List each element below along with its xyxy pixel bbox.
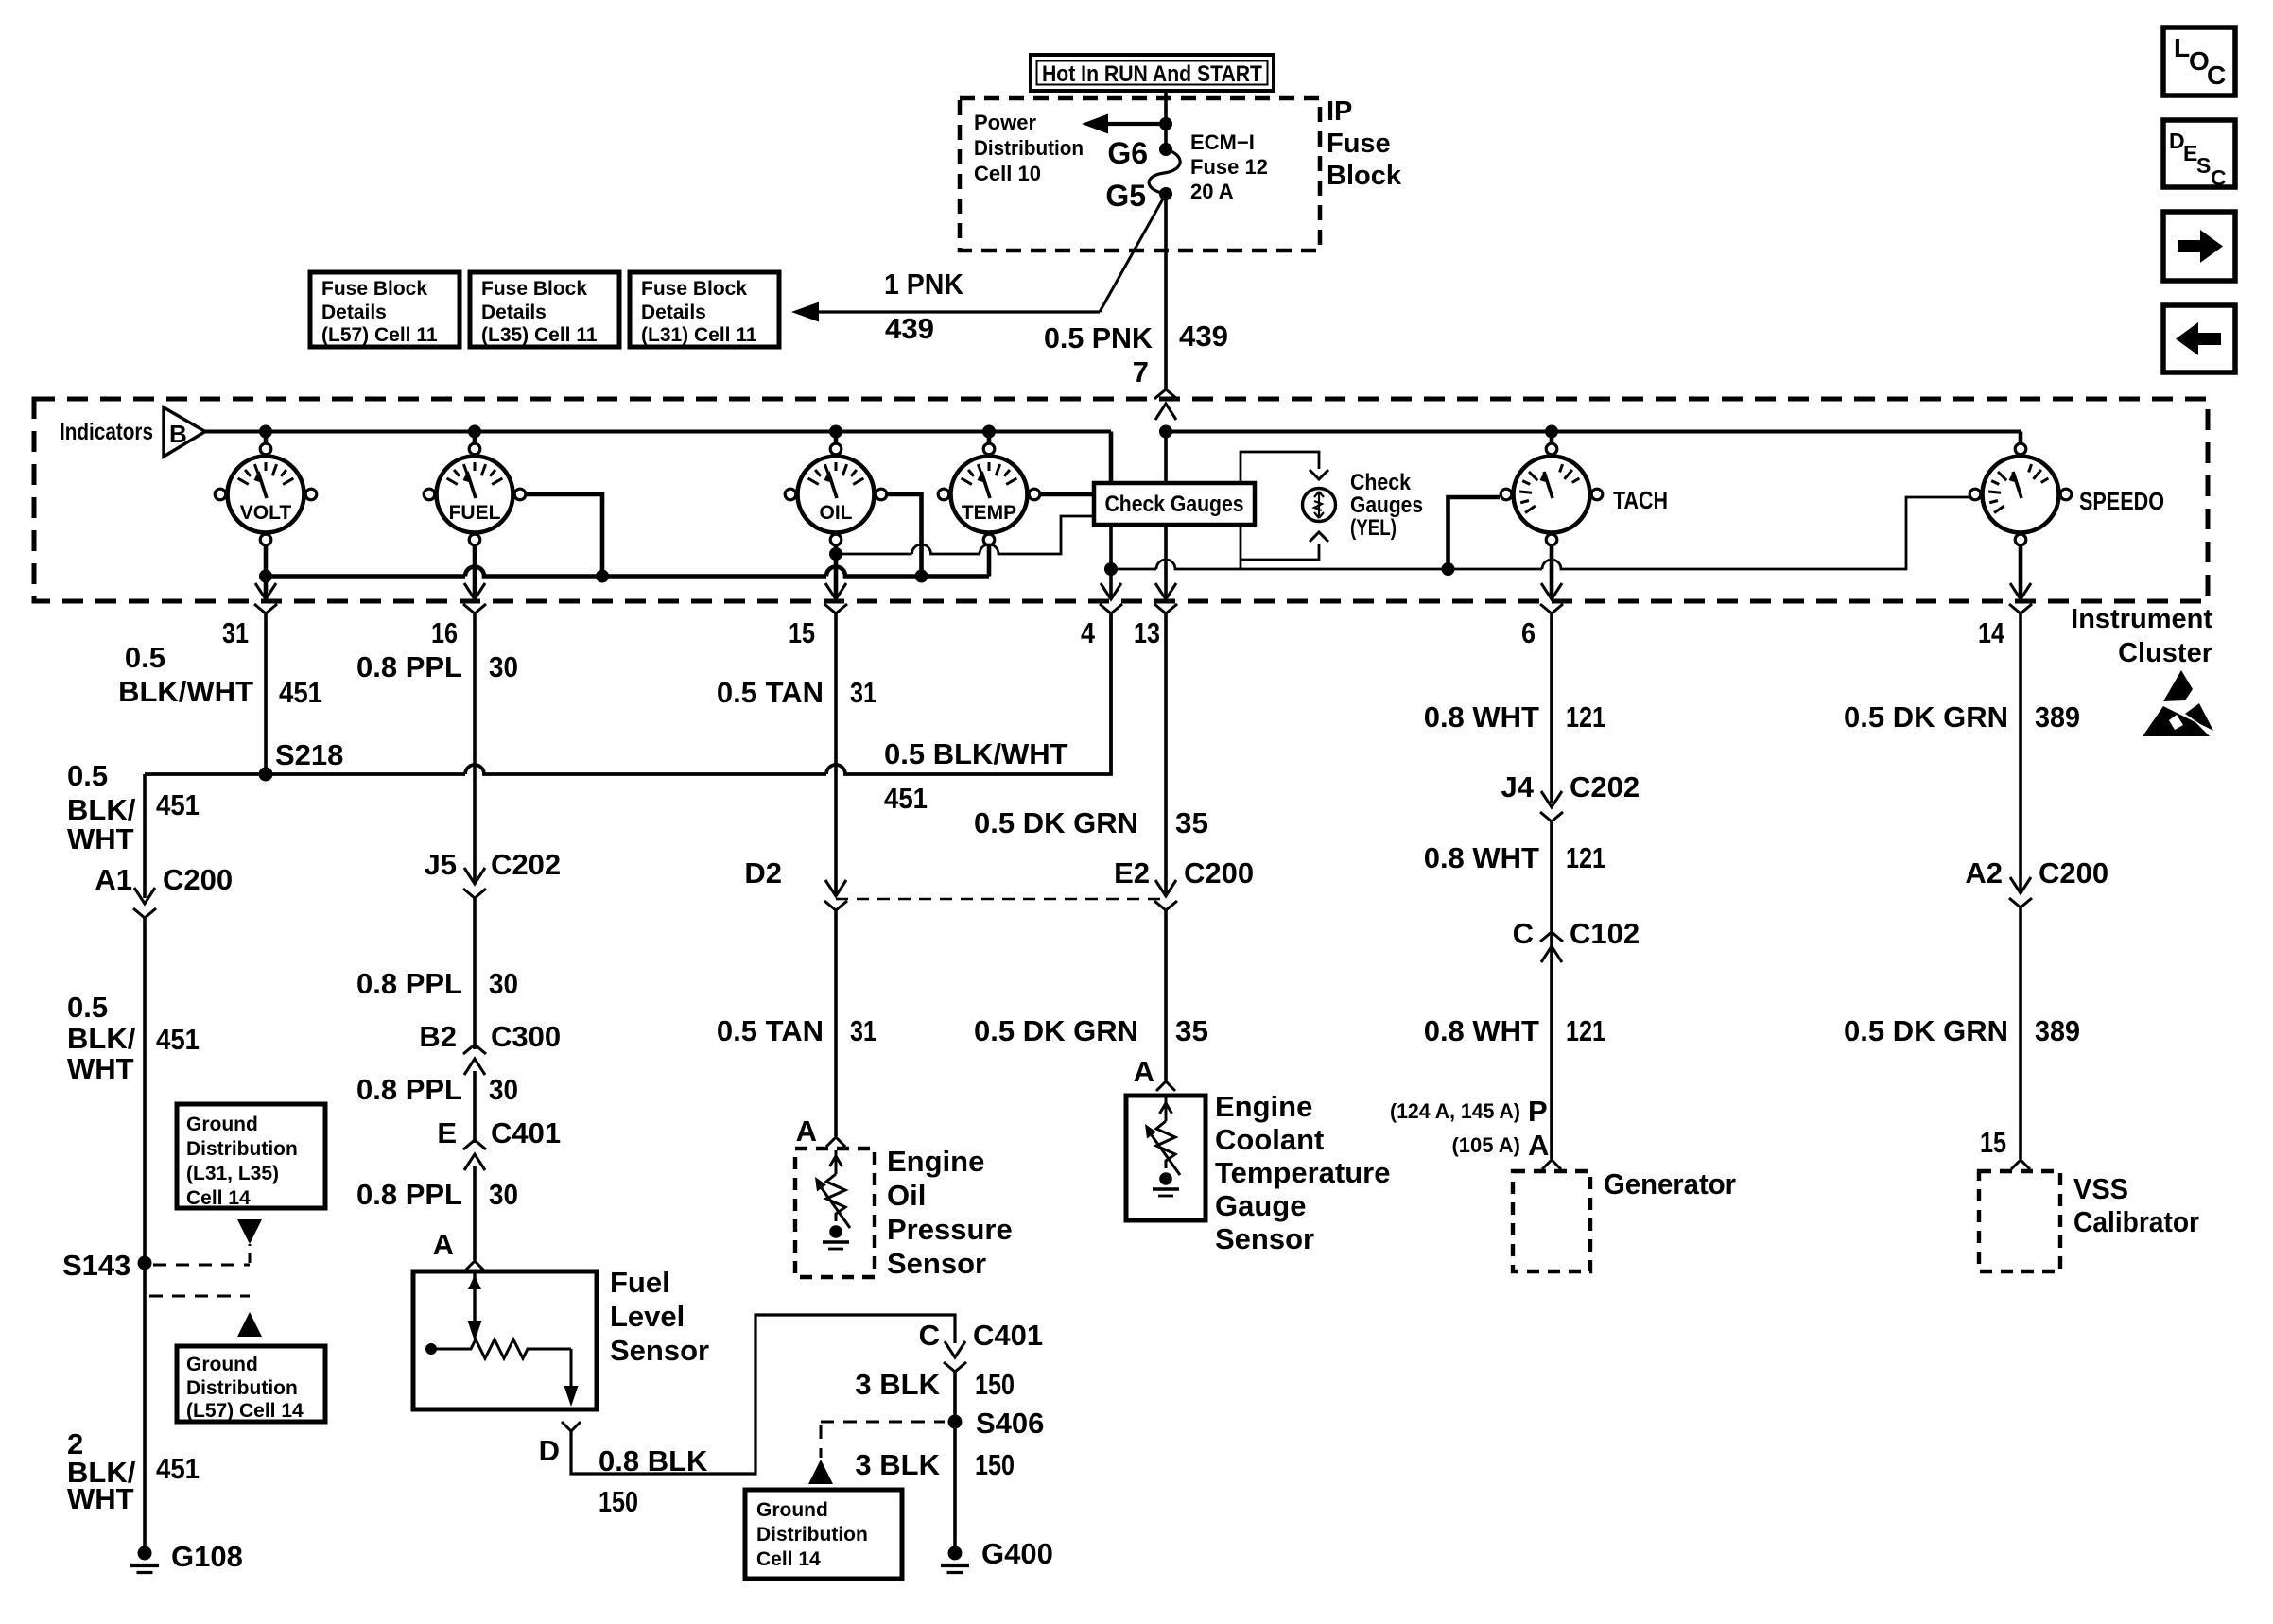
svg-text:3 BLK: 3 BLK: [855, 1448, 940, 1481]
stub bus to TEMP top: [987, 432, 992, 444]
connector B2 C300: [464, 1059, 485, 1075]
svg-text:J4: J4: [1501, 770, 1535, 803]
junction dot bus over TACH: [1545, 425, 1558, 439]
svg-text:G6: G6: [1107, 136, 1148, 170]
svg-text:S406: S406: [976, 1407, 1044, 1440]
gauge OIL: [798, 457, 875, 533]
coolant sensor top chevron: [1156, 1081, 1175, 1091]
svg-text:C200: C200: [1184, 856, 1254, 890]
svg-text:G5: G5: [1105, 179, 1146, 213]
svg-text:S143: S143: [62, 1249, 130, 1282]
svg-text:20 A: 20 A: [1190, 180, 1234, 203]
dashed link S143 to L31/L35 ground cell: [153, 1264, 250, 1267]
svg-text:6: 6: [1521, 616, 1536, 649]
cluster exit connector pin 6: [1541, 583, 1562, 599]
svg-text:Details: Details: [321, 302, 387, 323]
svg-text:150: 150: [975, 1368, 1015, 1401]
wire A1 to S143: [143, 918, 147, 1263]
svg-text:Engine: Engine: [887, 1145, 984, 1178]
svg-text:A: A: [1134, 1055, 1154, 1088]
Fuse Block Details box 1: [310, 272, 460, 347]
arrowhead to Fuse Block Details: [791, 302, 819, 322]
svg-text:Block: Block: [1327, 161, 1402, 191]
svg-text:150: 150: [599, 1485, 638, 1518]
wire lamp loop left+top: [1241, 452, 1319, 569]
arrow to Power Distribution: [1099, 122, 1166, 126]
connector C C102: [1541, 946, 1562, 962]
IP Fuse Block dashed outline: [960, 98, 1320, 251]
svg-text:Instrument: Instrument: [2071, 604, 2212, 634]
connector E2 C200: [1155, 880, 1176, 896]
wire C102 to generator: [1550, 957, 1553, 1159]
lamp bottom chevron: [1310, 532, 1328, 542]
terminal G6 dot: [1159, 143, 1172, 156]
connector A1 C200: [134, 888, 155, 904]
svg-text:Details: Details: [641, 302, 706, 323]
Fuel Level Sensor box: [413, 1271, 597, 1409]
svg-text:D2: D2: [744, 856, 782, 890]
wire indicator bus: [205, 430, 1111, 434]
cluster entry connector pin 7: [1155, 404, 1176, 420]
wire FUEL right terminal branch: [527, 494, 602, 577]
wire 4 below Check Gauges box: [1109, 522, 1113, 597]
svg-text:Temperature: Temperature: [1215, 1156, 1391, 1189]
dashed link S143 to L57 ground cell: [149, 1295, 250, 1298]
wire OIL bottom: [834, 545, 839, 597]
svg-text:15: 15: [789, 616, 815, 649]
svg-text:C200: C200: [163, 863, 233, 896]
cluster exit connector pin 14: [2010, 583, 2031, 599]
wire bus corner down to SPEEDO top: [2019, 432, 2023, 444]
svg-text:Fuel: Fuel: [610, 1266, 670, 1299]
wire TACH bottom: [1550, 545, 1554, 597]
svg-text:451: 451: [156, 788, 200, 821]
svg-text:35: 35: [1175, 806, 1208, 839]
svg-text:0.8 PPL: 0.8 PPL: [356, 1178, 462, 1211]
svg-text:Fuse 12: Fuse 12: [1190, 155, 1268, 179]
fuel sensor output lead: [570, 1349, 573, 1388]
wire TEMP bottom to ground bus: [987, 545, 992, 577]
label box 'Hot In RUN And START': [1031, 55, 1274, 91]
svg-text:C: C: [2207, 60, 2226, 90]
svg-text:IP: IP: [1327, 96, 1352, 127]
svg-text:121: 121: [1566, 700, 1605, 734]
svg-text:0.5 DK GRN: 0.5 DK GRN: [1844, 700, 2008, 734]
coolant sensor sender symbol: [1160, 1097, 1172, 1121]
wire E to fuel sensor: [473, 1166, 477, 1260]
svg-text:E: E: [437, 1116, 457, 1149]
oil sensor top chevron: [826, 1137, 845, 1147]
svg-text:Distribution: Distribution: [186, 1377, 298, 1399]
junction dot bus over FUEL: [468, 425, 481, 439]
svg-text:31: 31: [850, 676, 876, 709]
svg-text:C202: C202: [1570, 770, 1640, 803]
svg-text:B2: B2: [419, 1020, 457, 1053]
gauge VOLT: [228, 457, 304, 533]
svg-text:13: 13: [1134, 616, 1160, 649]
svg-text:15: 15: [1980, 1126, 2006, 1159]
svg-text:4: 4: [1081, 616, 1096, 649]
svg-text:C202: C202: [491, 848, 561, 881]
svg-text:(105 A): (105 A): [1451, 1133, 1520, 1157]
svg-text:Check: Check: [1350, 470, 1412, 495]
wire ignition bus right: [1166, 430, 2021, 434]
svg-text:WHT: WHT: [67, 1052, 134, 1085]
svg-text:G400: G400: [981, 1537, 1053, 1570]
Fuse Block Details box 2: [470, 272, 619, 347]
wire TACH feed up: [1449, 497, 1501, 569]
svg-text:Ground: Ground: [756, 1499, 828, 1521]
gauge SPEEDO: [1983, 457, 2059, 533]
ground bus with hops: [266, 567, 989, 577]
fuel sensor resistor: [425, 1343, 437, 1355]
svg-text:Level: Level: [610, 1300, 685, 1333]
Fuse Block Details box 3: [630, 272, 779, 347]
off-page triangle to ground cell 14: [808, 1460, 833, 1484]
svg-text:C200: C200: [2039, 856, 2108, 890]
svg-text:BLK/: BLK/: [67, 793, 136, 826]
wire lamp loop bottom: [1241, 544, 1319, 560]
junction dot bus over OIL: [829, 425, 842, 439]
svg-text:Ground: Ground: [186, 1354, 258, 1375]
svg-text:Indicators: Indicators: [60, 419, 153, 445]
svg-text:Details: Details: [481, 302, 547, 323]
svg-text:VSS: VSS: [2073, 1172, 2128, 1205]
svg-text:Coolant: Coolant: [1215, 1123, 1324, 1156]
stub bus to TACH top: [1550, 432, 1554, 444]
svg-text:1 PNK: 1 PNK: [884, 268, 964, 301]
wire 31 BLK/WHT down to S218: [264, 613, 268, 774]
gauge FUEL: [437, 457, 513, 533]
wire 13 through cluster: [1164, 432, 1168, 598]
svg-text:150: 150: [975, 1448, 1015, 1481]
gauge TEMP: [951, 457, 1028, 533]
stub bus to FUEL top: [473, 432, 477, 444]
svg-text:0.8 PPL: 0.8 PPL: [356, 1073, 462, 1106]
wire D to C401 connector: [571, 1315, 955, 1474]
dashed connector line D2-E2: [836, 898, 1166, 901]
svg-text:30: 30: [489, 650, 518, 683]
svg-text:TACH: TACH: [1613, 486, 1668, 514]
svg-text:0.5 TAN: 0.5 TAN: [717, 1014, 824, 1047]
VSS top chevron: [2011, 1160, 2030, 1169]
svg-text:Distribution: Distribution: [974, 136, 1084, 160]
svg-text:Cell 14: Cell 14: [756, 1548, 821, 1570]
lamp top chevron: [1310, 470, 1328, 479]
prev-page nav box: [2163, 305, 2235, 372]
svg-text:0.5: 0.5: [125, 641, 165, 674]
junction dot bus over TEMP: [982, 425, 996, 439]
svg-text:439: 439: [885, 312, 934, 345]
svg-text:A: A: [1528, 1129, 1549, 1162]
svg-text:L: L: [2174, 33, 2190, 62]
Ground Distribution (L31,L35) Cell 14 box: [177, 1104, 325, 1208]
svg-text:Check Gauges: Check Gauges: [1105, 492, 1244, 517]
wire J5 to B2: [473, 898, 477, 1049]
wire J4 to C102: [1550, 821, 1553, 957]
svg-text:(124 A, 145 A): (124 A, 145 A): [1390, 1099, 1520, 1123]
svg-text:Fuse: Fuse: [1327, 129, 1391, 159]
svg-text:Cell 14: Cell 14: [186, 1187, 251, 1209]
wire B2 to E: [473, 1071, 477, 1143]
DESC nav box: [2163, 120, 2235, 187]
svg-text:WHT: WHT: [67, 822, 134, 855]
svg-text:451: 451: [156, 1452, 200, 1485]
svg-text:Gauge: Gauge: [1215, 1189, 1306, 1222]
wire FUEL bottom through bus: [473, 545, 477, 597]
junction dot wire4 lamp feed: [1104, 562, 1118, 576]
svg-text:FUEL: FUEL: [449, 502, 501, 524]
svg-text:A: A: [796, 1114, 817, 1148]
svg-text:0.8 PPL: 0.8 PPL: [356, 967, 462, 1000]
ground G400: [948, 1546, 963, 1561]
fuel sensor D chevron: [562, 1422, 581, 1431]
cluster exit connector pin 15: [825, 583, 846, 599]
svg-text:31: 31: [222, 616, 249, 649]
svg-text:0.5 PNK: 0.5 PNK: [1044, 321, 1154, 354]
ESD warning symbol: [2163, 670, 2193, 701]
svg-text:451: 451: [279, 676, 322, 709]
svg-text:SPEEDO: SPEEDO: [2079, 487, 2164, 515]
Ground Distribution Cell 14 box: [745, 1490, 902, 1579]
svg-text:16: 16: [431, 616, 458, 649]
svg-text:(YEL): (YEL): [1350, 515, 1397, 541]
wire S143 to G108: [143, 1263, 147, 1553]
svg-text:A: A: [433, 1228, 454, 1261]
svg-text:(L31, L35): (L31, L35): [186, 1163, 279, 1184]
svg-text:Generator: Generator: [1604, 1167, 1736, 1201]
Ground Distribution (L57) Cell 14 box: [177, 1346, 325, 1422]
wire lamp feed with hop over wire13: [1111, 560, 1241, 569]
off-page triangle to upper ground cell: [237, 1219, 262, 1244]
svg-text:0.5 DK GRN: 0.5 DK GRN: [974, 1014, 1138, 1047]
Generator dashed box: [1513, 1171, 1590, 1271]
VSS Calibrator dashed box: [1979, 1171, 2060, 1271]
wire C to S406: [953, 1371, 957, 1422]
svg-text:Fuse Block: Fuse Block: [641, 278, 747, 300]
stub bus to OIL top: [834, 432, 839, 444]
svg-text:J5: J5: [425, 848, 457, 881]
svg-text:BLK/WHT: BLK/WHT: [118, 675, 253, 708]
svg-text:Fuse Block: Fuse Block: [481, 278, 587, 300]
connector A2 C200: [2010, 877, 2031, 893]
svg-text:(L57) Cell 14: (L57) Cell 14: [186, 1400, 304, 1422]
diagonal wire G5 to 1 PNK: [1100, 194, 1166, 312]
svg-text:121: 121: [1566, 841, 1605, 874]
wire 14 DK GRN to A2: [2019, 613, 2022, 893]
wire bus corner down into Check Gauges box: [1109, 432, 1114, 486]
svg-text:C: C: [2211, 165, 2227, 190]
svg-text:439: 439: [1179, 320, 1228, 353]
svg-text:C: C: [1513, 917, 1534, 950]
connector C C401: [945, 1341, 965, 1357]
junction dot at arrow branch: [1159, 117, 1172, 130]
svg-text:A1: A1: [95, 863, 132, 896]
wire from Hot box to fuse: [1164, 91, 1168, 149]
svg-text:BLK/: BLK/: [67, 1022, 136, 1055]
svg-text:E2: E2: [1114, 856, 1150, 890]
svg-text:7: 7: [1133, 355, 1149, 389]
svg-text:31: 31: [850, 1014, 876, 1047]
svg-text:Oil: Oil: [887, 1179, 926, 1212]
Engine Coolant Temperature Gauge Sensor box: [1126, 1096, 1206, 1220]
wire 16 PPL to J5: [473, 613, 477, 884]
svg-text:C: C: [919, 1319, 940, 1352]
svg-text:Ground: Ground: [186, 1114, 258, 1135]
check gauges indicator lamp: [1303, 489, 1336, 522]
junction dot OIL-right branch on bus: [915, 570, 928, 583]
junction dot ignition bus at wire13: [1159, 425, 1172, 439]
junction dot FUEL-right branch on bus: [596, 570, 609, 583]
svg-text:C401: C401: [491, 1116, 561, 1149]
fuel sensor wiper arrow: [473, 1273, 476, 1322]
wire 0.5 PNK from G5 down to cluster: [1164, 194, 1168, 390]
stub bus to VOLT top: [264, 432, 269, 444]
svg-text:30: 30: [489, 1178, 518, 1211]
wire 6 WHT to J4: [1550, 613, 1553, 803]
wire 13 to E2: [1164, 613, 1168, 896]
wire VOLT bottom to exit: [264, 545, 269, 597]
LOC nav box: [2163, 27, 2235, 95]
svg-text:G108: G108: [171, 1540, 243, 1573]
wire 15 TAN to D2: [834, 613, 838, 896]
svg-text:VOLT: VOLT: [240, 502, 292, 524]
wire OIL right terminal branch: [888, 494, 922, 577]
junction S218 dot: [259, 768, 273, 782]
svg-text:Pressure: Pressure: [887, 1213, 1013, 1246]
wire OIL bottom to Check Gauges box: [836, 516, 1096, 554]
svg-text:C102: C102: [1570, 917, 1640, 950]
junction S406 dot: [948, 1415, 963, 1429]
svg-text:Engine: Engine: [1215, 1090, 1312, 1123]
svg-text:D: D: [539, 1434, 560, 1467]
svg-text:121: 121: [1566, 1014, 1605, 1047]
svg-text:30: 30: [489, 967, 518, 1000]
svg-text:WHT: WHT: [67, 1482, 134, 1515]
svg-text:389: 389: [2035, 700, 2080, 734]
cluster exit connector pin 31: [255, 583, 276, 599]
svg-text:B: B: [169, 420, 187, 448]
wire E2 to coolant sensor: [1164, 909, 1168, 1080]
svg-text:451: 451: [156, 1023, 200, 1056]
cluster exit connector pin 13: [1155, 583, 1176, 599]
cluster exit connector pin 16: [464, 583, 485, 599]
svg-text:S: S: [2196, 153, 2211, 178]
junction dot VOLT ground bus: [259, 570, 272, 583]
svg-text:0.8 PPL: 0.8 PPL: [356, 650, 462, 683]
connector J5 C202: [464, 868, 485, 884]
svg-text:0.5: 0.5: [67, 759, 108, 792]
junction dot OIL bottom: [829, 547, 842, 561]
svg-text:0.8 WHT: 0.8 WHT: [1424, 1014, 1539, 1047]
wire S218 left branch down: [143, 774, 147, 898]
wire lamp feed to TACH and SPEEDO: [1241, 497, 1969, 569]
svg-text:(L31) Cell 11: (L31) Cell 11: [641, 324, 757, 346]
oil sensor sender symbol: [830, 1150, 842, 1174]
wire SPEEDO bottom: [2019, 545, 2023, 597]
wire A2 to VSS: [2019, 907, 2022, 1159]
terminal G5 dot: [1159, 187, 1172, 200]
svg-text:(L35) Cell 11: (L35) Cell 11: [481, 324, 598, 346]
svg-text:Sensor: Sensor: [610, 1334, 709, 1367]
gauge TACH: [1514, 457, 1590, 533]
svg-text:0.5 DK GRN: 0.5 DK GRN: [974, 806, 1138, 839]
svg-text:Cell 10: Cell 10: [974, 162, 1041, 185]
svg-text:0.5: 0.5: [67, 991, 108, 1024]
svg-text:Calibrator: Calibrator: [2073, 1205, 2199, 1238]
svg-text:30: 30: [489, 1073, 518, 1106]
wire S218 ground bus: [145, 613, 1111, 774]
svg-text:0.5 TAN: 0.5 TAN: [717, 676, 824, 709]
svg-text:Sensor: Sensor: [887, 1247, 986, 1280]
connector D2: [825, 880, 846, 896]
wire 1 PNK horizontal: [807, 310, 1100, 313]
wire D2 to oil sensor: [834, 909, 838, 1136]
svg-text:A2: A2: [1965, 856, 2003, 890]
svg-text:Power: Power: [974, 111, 1036, 134]
svg-text:14: 14: [1978, 616, 2005, 649]
fuel sensor top chevron: [465, 1261, 484, 1270]
svg-text:0.8 BLK: 0.8 BLK: [599, 1444, 708, 1477]
indicator feed triangle B: [164, 407, 205, 457]
svg-text:Fuse Block: Fuse Block: [321, 278, 427, 300]
Instrument Cluster dashed outline: [34, 399, 2208, 601]
svg-text:Distribution: Distribution: [756, 1524, 868, 1546]
svg-text:C300: C300: [491, 1020, 561, 1053]
svg-text:0.5 DK GRN: 0.5 DK GRN: [1844, 1014, 2008, 1047]
connector E C401: [464, 1154, 485, 1170]
svg-text:35: 35: [1175, 1014, 1208, 1047]
svg-text:Sensor: Sensor: [1215, 1222, 1314, 1255]
svg-text:3 BLK: 3 BLK: [855, 1368, 940, 1401]
svg-text:389: 389: [2035, 1014, 2080, 1047]
off-page triangle to lower ground cell: [237, 1312, 262, 1337]
Engine Oil Pressure Sensor dashed box: [795, 1149, 875, 1277]
svg-text:0.5 BLK/WHT: 0.5 BLK/WHT: [884, 737, 1068, 770]
wire S406 to G400: [953, 1422, 957, 1553]
svg-text:Gauges: Gauges: [1350, 492, 1423, 518]
svg-text:P: P: [1528, 1095, 1548, 1128]
wire TEMP right to Check Gauges box: [1041, 492, 1096, 497]
svg-text:ECM−I: ECM−I: [1190, 130, 1255, 154]
Check Gauges label box: [1094, 483, 1255, 525]
connector J4 C202: [1541, 791, 1562, 807]
svg-text:Hot In RUN And START: Hot In RUN And START: [1042, 61, 1262, 87]
junction dot TACH feed: [1442, 562, 1455, 576]
dashed link S406 to ground cell: [821, 1421, 945, 1424]
svg-text:0.8 WHT: 0.8 WHT: [1424, 841, 1539, 874]
svg-text:(L57) Cell 11: (L57) Cell 11: [321, 324, 438, 346]
ground G108: [138, 1546, 152, 1561]
junction S143 dot: [138, 1256, 152, 1270]
svg-text:OIL: OIL: [820, 502, 853, 524]
svg-text:S218: S218: [275, 738, 343, 771]
svg-text:Distribution: Distribution: [186, 1138, 298, 1160]
svg-text:451: 451: [884, 782, 928, 815]
svg-text:Cluster: Cluster: [2118, 638, 2212, 668]
svg-text:TEMP: TEMP: [962, 502, 1016, 524]
svg-text:C401: C401: [973, 1319, 1043, 1352]
junction dot bus over VOLT: [259, 425, 272, 439]
cluster exit connector pin 4: [1101, 583, 1121, 599]
fuse ECM-I element: [1149, 149, 1180, 194]
svg-text:0.8 WHT: 0.8 WHT: [1424, 700, 1539, 734]
generator top chevron: [1542, 1160, 1561, 1169]
next-page nav box: [2163, 212, 2235, 281]
